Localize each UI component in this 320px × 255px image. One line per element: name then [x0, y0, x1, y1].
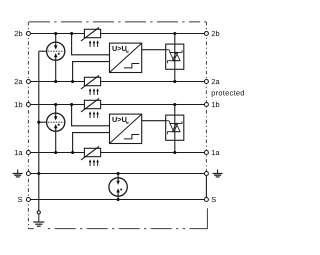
junction 2b/GDT: [54, 32, 57, 35]
wire suppressor diode through 1b-1a: [174, 105, 176, 153]
junction earth bus / electrode: [37, 121, 40, 124]
label S right: [212, 197, 216, 202]
label protected: [212, 90, 244, 97]
terminal 2a right: [204, 80, 208, 84]
terminal 2b right: [204, 32, 208, 36]
varistor lower (1a): [81, 147, 101, 166]
junction ground line / GDT3: [117, 172, 120, 175]
wire trigger output: [142, 120, 166, 122]
varistor lower (2a): [81, 76, 101, 95]
junction 1a/GDT: [54, 151, 57, 154]
terminal 2b left: [26, 32, 30, 36]
wire right side ground-to-S link: [205, 174, 207, 200]
wire line 1a: [28, 152, 206, 154]
gas discharge tube ground-S: [109, 178, 127, 196]
label 2a right: [212, 79, 220, 84]
terminal S right: [204, 198, 208, 202]
wire GDT3 through ground-S: [117, 174, 119, 200]
label 2a left: [15, 79, 23, 84]
junction 1b/GDT: [54, 103, 57, 106]
enclosure border right (dash-dot): [205, 22, 207, 174]
channel 2: [39, 28, 184, 95]
wire GDT through 1b-1a: [55, 105, 57, 153]
gas discharge tube channel 1: [47, 113, 65, 131]
junction 2b/trigger: [70, 32, 73, 35]
channel 1: [37, 99, 184, 166]
wire trigger input from 1b: [72, 105, 110, 126]
terminal ground right: [204, 172, 208, 176]
terminal 1b right: [204, 103, 208, 107]
terminal S left: [26, 198, 30, 202]
enclosure border bottom (dash-dot): [29, 228, 208, 230]
junction 1b/diode: [173, 103, 176, 106]
varistor upper (2b): [81, 28, 101, 47]
trigger unit U>UN channel 2: [110, 43, 166, 72]
label 2b left: [15, 31, 23, 37]
suppressor diode channel 2: [166, 44, 184, 69]
wire trigger input from 1a: [73, 133, 110, 153]
wire GDT through 2b-2a: [55, 34, 57, 82]
terminal 1b left: [26, 103, 30, 107]
label 1b left: [15, 102, 22, 108]
terminal earth bottom: [37, 211, 40, 214]
junction 1a/diode: [173, 151, 176, 154]
wire suppressor diode through 2b-2a: [174, 34, 176, 82]
junction 1a/trigger: [71, 151, 74, 154]
wire GDT centre electrode to earth bus: [39, 50, 47, 52]
label 1b right: [212, 102, 219, 108]
ground symbol left: [13, 169, 23, 177]
terminal 1a right: [204, 151, 208, 155]
enclosure border left (dash-dot): [27, 22, 29, 229]
wire trigger input from 2a: [73, 62, 110, 82]
junction 2b/diode: [173, 32, 176, 35]
junction earth bus / ground line: [37, 172, 40, 175]
gas discharge tube channel 2: [47, 42, 65, 60]
wire ground line: [28, 173, 206, 175]
ground symbol right: [213, 169, 223, 177]
junction 2a/diode: [173, 80, 176, 83]
wire trigger output: [142, 49, 166, 51]
wire GDT centre electrode to earth bus: [39, 121, 47, 123]
label 2b right: [212, 31, 220, 37]
ground symbol bottom earth: [33, 214, 44, 226]
junction S line / GDT3: [117, 198, 120, 201]
varistor upper (1b): [81, 99, 101, 118]
wire earth bus vertical: [38, 51, 40, 211]
label 1a left: [15, 150, 23, 155]
label 1a right: [212, 150, 220, 155]
terminal 2a left: [26, 80, 30, 84]
wire line 2b: [28, 33, 206, 35]
junction 2a/trigger: [71, 80, 74, 83]
wire trigger input from 2b: [72, 34, 110, 55]
enclosure border top (dash-dot): [29, 21, 207, 23]
junction 1b/trigger: [70, 103, 73, 106]
wire line 1b: [28, 104, 206, 106]
terminal 1a left: [26, 151, 30, 155]
trigger unit U>UN channel 1: [110, 114, 166, 143]
wire line 2a: [28, 81, 206, 83]
wire line S: [28, 199, 206, 201]
label S left: [18, 197, 22, 202]
terminal ground left: [26, 172, 30, 176]
junction 2a/GDT: [54, 80, 57, 83]
suppressor diode channel 1: [166, 115, 184, 140]
